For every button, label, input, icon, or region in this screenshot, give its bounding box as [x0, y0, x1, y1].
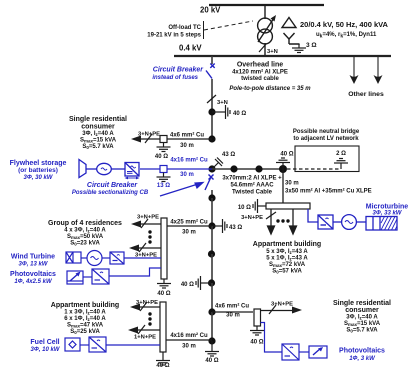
- node N4: [208, 194, 215, 201]
- cable to feeder 4x16 mm2 Cu 30m: [166, 339, 212, 341]
- svg-text:40 Ω: 40 Ω: [156, 363, 169, 369]
- svg-text:4x120 mm² Al XLPE: 4x120 mm² Al XLPE: [232, 69, 288, 76]
- wire to bus bar: [124, 257, 161, 259]
- node N2: [208, 135, 215, 142]
- svg-text:Smax=15 kVA: Smax=15 kVA: [80, 138, 117, 144]
- wire: [299, 351, 309, 353]
- node N9 end: [208, 337, 215, 344]
- svg-text:Single residential: Single residential: [333, 300, 391, 307]
- svg-text:3Φ, 30 kW: 3Φ, 30 kW: [24, 175, 54, 181]
- slash 3+N on feeder: [207, 95, 216, 103]
- ground 43 ohm at N3 (diagonal): [212, 158, 223, 170]
- PV inverter: [92, 269, 109, 284]
- svg-text:3+N: 3+N: [217, 100, 228, 106]
- svg-text:Wind Turbine: Wind Turbine: [11, 254, 55, 261]
- svg-text:Smax=47 kVA: Smax=47 kVA: [67, 323, 104, 329]
- svg-text:3+N+PE: 3+N+PE: [136, 300, 158, 306]
- svg-text:consumer: consumer: [345, 307, 379, 314]
- group of 4 residences bus bar: [161, 218, 167, 279]
- svg-text:Fuel Cell: Fuel Cell: [30, 339, 59, 346]
- node N5: [208, 222, 215, 229]
- ground at N1: [212, 111, 221, 113]
- svg-text:3Φ, 13 kW: 3Φ, 13 kW: [19, 262, 49, 268]
- wind turbine gearbox symbol: [66, 252, 81, 263]
- wind converter: [110, 252, 124, 264]
- fuel cell symbol: [65, 338, 80, 351]
- main feeder wire N7 to N8: [211, 283, 213, 312]
- svg-text:4x25 mm² Cu: 4x25 mm² Cu: [170, 219, 208, 226]
- svg-text:(or batteries): (or batteries): [18, 167, 58, 174]
- single residential consumer (bottom right) branch: [212, 311, 253, 313]
- PV panel (bottom right): [309, 346, 327, 358]
- svg-text:3Φ, 10 kW: 3Φ, 10 kW: [31, 347, 61, 353]
- svg-text:30 m: 30 m: [285, 181, 299, 187]
- PV inverter (bottom right): [282, 344, 299, 360]
- svg-text:4x16 mm² Cu: 4x16 mm² Cu: [170, 332, 208, 339]
- flywheel symbol: [79, 160, 97, 178]
- dashed neutral bridge wire: [287, 168, 341, 170]
- svg-text:43 Ω: 43 Ω: [222, 152, 235, 158]
- main feeder wire: CB2 to N4: [211, 190, 213, 198]
- branch: single residential consumer (top left) wire: [167, 138, 212, 140]
- wye winding symbol: [284, 33, 300, 44]
- riser wire node A to apartment bus: [282, 169, 284, 203]
- svg-text:3x50 mm² Al +35mm² Cu XLPE: 3x50 mm² Al +35mm² Cu XLPE: [285, 188, 372, 195]
- other lines arrow 2: [374, 57, 383, 84]
- node N1: [208, 108, 215, 115]
- dots: [148, 230, 151, 243]
- ground at feeder end: [211, 341, 213, 347]
- svg-text:2 Ω: 2 Ω: [336, 151, 346, 157]
- wire: [333, 221, 341, 223]
- svg-text:4 x 3Φ, Iz=40 A: 4 x 3Φ, Iz=40 A: [64, 228, 106, 234]
- slash 3+N transformer secondary: [259, 44, 266, 52]
- consumer arrow 2 (apt): [135, 329, 160, 331]
- neutral bridge box: [295, 146, 359, 172]
- node N6: [208, 250, 215, 257]
- svg-text:Off-load TC: Off-load TC: [168, 25, 201, 31]
- svg-text:3+N+PE: 3+N+PE: [138, 132, 160, 138]
- dots between arrows: [276, 219, 289, 222]
- svg-text:Pole-to-pole distance = 35 m: Pole-to-pole distance = 35 m: [229, 86, 311, 92]
- svg-text:1+N+PE: 1+N+PE: [134, 335, 156, 341]
- svg-text:40 Ω: 40 Ω: [250, 340, 263, 346]
- microturbine wire from bus bar: [308, 209, 318, 222]
- wire: [80, 344, 89, 346]
- 20 kV bus: [209, 4, 324, 6]
- svg-text:Microturbine: Microturbine: [366, 204, 408, 211]
- svg-text:instead of fuses: instead of fuses: [152, 75, 198, 81]
- connection box: [160, 136, 167, 143]
- wire converter to box: [140, 168, 160, 170]
- svg-text:20 kV: 20 kV: [200, 6, 221, 15]
- svg-text:Possible sectionalizing CB: Possible sectionalizing CB: [72, 190, 149, 196]
- blue connection box: [160, 166, 167, 173]
- ground below bottom-right box: [250, 326, 264, 335]
- svg-text:40 Ω: 40 Ω: [155, 154, 168, 160]
- svg-text:S0=57 kVA: S0=57 kVA: [272, 269, 302, 275]
- consumer arrow down 1: [268, 209, 275, 234]
- main feeder wire: CB1 to node N1: [211, 79, 213, 139]
- svg-text:3Φ, Iz=40 A: 3Φ, Iz=40 A: [82, 131, 114, 137]
- svg-text:consumer: consumer: [81, 124, 115, 131]
- svg-text:Possible neutral bridge: Possible neutral bridge: [293, 129, 360, 135]
- wire: transformer to 0.4kV bus: [264, 43, 266, 56]
- svg-text:4x16 mm² Cu: 4x16 mm² Cu: [170, 157, 208, 164]
- svg-text:Photovoltaics: Photovoltaics: [339, 348, 385, 355]
- fuel cell inverter: [89, 337, 106, 352]
- svg-text:4x6 mm² Cu: 4x6 mm² Cu: [170, 132, 204, 139]
- svg-text:Other lines: Other lines: [348, 91, 384, 98]
- machine M1 circle: [97, 163, 112, 174]
- svg-text:3+N+PE: 3+N+PE: [137, 215, 159, 221]
- main feeder wire N5 to N6: [211, 226, 213, 254]
- svg-text:Single residential: Single residential: [69, 116, 127, 123]
- svg-text:Group of 4 residences: Group of 4 residences: [48, 220, 122, 227]
- microturbine symbol: [366, 217, 397, 231]
- wind machine circle: [87, 251, 102, 266]
- svg-text:Smax=50 kVA: Smax=50 kVA: [67, 234, 104, 240]
- svg-text:S0=25 kVA: S0=25 kVA: [70, 329, 100, 335]
- PV panel symbol: [67, 271, 83, 284]
- node N3: [208, 165, 215, 172]
- apartment building bus bar (mid right): [266, 203, 310, 209]
- lateral wire N3 to node A: [212, 168, 283, 170]
- consumer arrow 1 (apt): [137, 306, 160, 308]
- svg-text:19-21 kV in 5 steps: 19-21 kV in 5 steps: [147, 33, 201, 39]
- svg-text:30 m: 30 m: [180, 172, 194, 178]
- svg-text:S0=5.7 kVA: S0=5.7 kVA: [82, 144, 114, 150]
- svg-text:40 Ω: 40 Ω: [157, 291, 170, 297]
- svg-text:54.6mm² AAAC: 54.6mm² AAAC: [230, 182, 274, 189]
- main feeder wire: bus to CB1: [211, 56, 213, 64]
- slash 3+N+PE: [145, 134, 152, 143]
- ground 43 ohm at N5: [212, 225, 218, 227]
- svg-text:Flywheel storage: Flywheel storage: [10, 160, 67, 167]
- ground below apartment bus bar: [162, 352, 164, 356]
- svg-text:1 x 3Φ, Iz=40 A: 1 x 3Φ, Iz=40 A: [64, 310, 106, 316]
- node A (lateral to apartment): [279, 165, 287, 173]
- machine circle: [342, 215, 357, 230]
- svg-text:Overhead line: Overhead line: [237, 62, 283, 69]
- wire: [102, 257, 110, 259]
- svg-text:5 x 1Φ, Iz=43 A: 5 x 1Φ, Iz=43 A: [266, 256, 308, 262]
- svg-text:3+N: 3+N: [267, 49, 278, 55]
- wire to bus bar: [106, 344, 160, 346]
- svg-text:30 m: 30 m: [226, 313, 240, 319]
- slash 3+N+PE: [266, 212, 276, 219]
- svg-text:30 m: 30 m: [182, 230, 196, 236]
- consumer arrow down 2: [290, 209, 297, 234]
- apartment building (bottom left) bus bar: [160, 302, 166, 352]
- ground below consumer box: [157, 143, 171, 152]
- wire: [83, 276, 92, 278]
- main feeder wire N6 to N7: [211, 254, 213, 283]
- wire: 20kV bus to transformer: [264, 5, 266, 19]
- svg-text:twisted cable: twisted cable: [241, 76, 279, 82]
- other lines arrow 1: [350, 57, 359, 84]
- svg-text:40 Ω: 40 Ω: [181, 282, 194, 288]
- svg-text:40 Ω: 40 Ω: [233, 111, 246, 117]
- ground at N7: [205, 282, 211, 284]
- svg-text:3x70mm:2 Al XLPE +: 3x70mm:2 Al XLPE +: [222, 176, 282, 182]
- svg-text:5 x 3Φ, Iz=43 A: 5 x 3Φ, Iz=43 A: [266, 249, 308, 255]
- cable to feeder: 4x25 mm2 Cu 30 m: [167, 225, 212, 227]
- svg-text:Smax=15 kVA: Smax=15 kVA: [344, 321, 381, 327]
- PV branch (bottom right, blue) wire: [261, 323, 283, 353]
- dots: [148, 312, 151, 325]
- node N7: [208, 279, 215, 286]
- svg-text:40 Ω: 40 Ω: [205, 358, 218, 364]
- ground 3 ohm (transformer neutral): [292, 44, 306, 53]
- ground 13 ohm flywheel box: [157, 173, 171, 182]
- 0.4 kV bus: [174, 55, 391, 57]
- svg-text:40 Ω: 40 Ω: [280, 152, 293, 158]
- consumer arrow right: [261, 310, 296, 312]
- wire: [81, 257, 87, 259]
- svg-text:30 m: 30 m: [180, 143, 194, 149]
- circuit breaker CB2 (blue) on feeder: [205, 175, 214, 191]
- svg-text:1Φ, 4x2.5 kW: 1Φ, 4x2.5 kW: [14, 279, 53, 285]
- ground below group bus bar: [157, 279, 171, 288]
- node N3c: [255, 165, 262, 172]
- svg-text:1Φ, 3 kW: 1Φ, 3 kW: [349, 356, 376, 362]
- svg-text:3Φ, 33 kW: 3Φ, 33 kW: [373, 211, 403, 217]
- svg-text:S0=5.7 kVA: S0=5.7 kVA: [346, 328, 378, 334]
- svg-text:Appartment building: Appartment building: [253, 241, 321, 248]
- circuit breaker CB1 (blue): [206, 64, 215, 79]
- svg-text:3 Ω: 3 Ω: [306, 42, 317, 49]
- microturbine converter: [318, 215, 333, 229]
- ground 10 ohm left of apartment bar: [262, 205, 266, 207]
- node N3b: [230, 165, 237, 172]
- svg-text:Circuit Breaker: Circuit Breaker: [87, 182, 138, 189]
- main feeder wire N8 to end: [211, 312, 213, 341]
- svg-text:20/0.4 kV, 50 Hz, 400 kVA: 20/0.4 kV, 50 Hz, 400 kVA: [300, 20, 389, 29]
- svg-text:10 Ω: 10 Ω: [238, 205, 251, 211]
- ground 40 ohm above node A: [282, 167, 284, 169]
- svg-text:13 Ω: 13 Ω: [157, 183, 170, 189]
- converter (AC/DC) flywheel: [125, 163, 140, 180]
- transformer T1 20/0.4 kV: [258, 15, 276, 44]
- svg-text:30 m: 30 m: [182, 344, 196, 350]
- svg-text:Photovoltaics: Photovoltaics: [10, 271, 56, 278]
- svg-text:3+N+PE: 3+N+PE: [241, 215, 263, 221]
- svg-text:Circuit Breaker: Circuit Breaker: [153, 67, 204, 74]
- svg-text:3Φ, Iz=40 A: 3Φ, Iz=40 A: [346, 315, 378, 321]
- svg-text:S0=23 kVA: S0=23 kVA: [70, 241, 100, 247]
- wire to converter: [111, 168, 125, 170]
- svg-text:Appartment building: Appartment building: [51, 302, 119, 309]
- svg-text:3+N+PE: 3+N+PE: [271, 302, 293, 308]
- svg-text:43 Ω: 43 Ω: [229, 225, 242, 231]
- svg-text:0.4 kV: 0.4 kV: [179, 44, 202, 53]
- consumer arrow 2 (group): [136, 247, 161, 249]
- wire PV to bus bar: [109, 268, 161, 276]
- consumer arrow 1 (group): [138, 223, 161, 225]
- ground 2 ohm neutral bridge: [334, 159, 348, 168]
- delta winding symbol: [282, 18, 296, 28]
- svg-text:Twisted Cable: Twisted Cable: [232, 190, 273, 196]
- wire box to N3: [167, 168, 212, 170]
- svg-text:6 x 1Φ, Iz=40 A: 6 x 1Φ, Iz=40 A: [64, 316, 106, 322]
- svg-text:to adjacent LV network: to adjacent LV network: [293, 136, 359, 142]
- main feeder wire: N4 to N5: [211, 198, 213, 226]
- consumer arrow: [131, 136, 141, 143]
- wire: [357, 221, 366, 223]
- node N8: [208, 308, 215, 315]
- TC bracket: [203, 21, 205, 39]
- svg-text:4x6 mm² Cu: 4x6 mm² Cu: [215, 303, 249, 310]
- connection box (bottom right): [254, 309, 261, 326]
- TC dashed link: [204, 21, 253, 30]
- svg-text:Smax=72 kVA: Smax=72 kVA: [269, 262, 306, 268]
